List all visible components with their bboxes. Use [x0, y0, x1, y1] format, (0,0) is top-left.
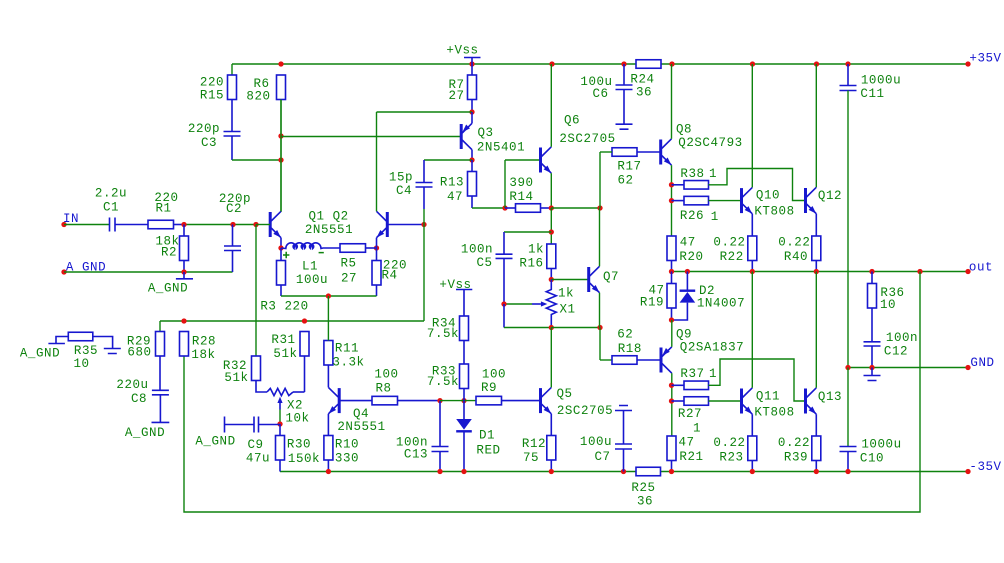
svg-text:3.3k: 3.3k	[332, 355, 364, 369]
wire Q3 base run	[281, 136, 461, 138]
wire Q9 collector	[671, 373, 673, 436]
transistor Q3	[461, 123, 525, 154]
junction on +35V rail at Q10 collector	[750, 61, 755, 66]
svg-text:R24: R24	[630, 73, 654, 87]
svg-text:R23: R23	[719, 450, 743, 464]
svg-text:Q8: Q8	[676, 123, 692, 137]
svg-text:C9: C9	[247, 438, 263, 452]
capacitor C6	[580, 64, 632, 124]
junction on +35V rail at Q8 collector	[669, 61, 674, 66]
svg-text:36: 36	[636, 86, 652, 100]
wire Q8 collector	[671, 64, 673, 139]
svg-text:330: 330	[335, 451, 359, 465]
resistor R12	[522, 436, 556, 472]
svg-text:A_GND: A_GND	[125, 426, 165, 440]
svg-text:0.22: 0.22	[713, 236, 745, 250]
junction Q1 base node	[253, 222, 258, 227]
svg-text:0.22: 0.22	[778, 236, 810, 250]
wire Q6 base	[505, 160, 541, 208]
svg-text:51k: 51k	[273, 347, 297, 361]
svg-text:R16: R16	[519, 256, 543, 270]
svg-text:47u: 47u	[246, 451, 270, 465]
wire C5 top branch	[504, 232, 551, 254]
node R6/C3/Q3-base junction	[278, 133, 283, 138]
svg-text:7.5k: 7.5k	[427, 327, 459, 341]
resistor R14	[505, 176, 552, 212]
svg-text:out: out	[969, 261, 993, 275]
svg-text:R15: R15	[200, 88, 224, 102]
resistor R4	[372, 248, 407, 296]
svg-text:2.2u: 2.2u	[95, 186, 127, 200]
resistor R8	[339, 367, 440, 405]
svg-text:R14: R14	[509, 190, 533, 204]
wire R8-R9 node run	[440, 400, 476, 402]
wire Q12 emitter	[815, 214, 817, 236]
wire R7 node to Q2 collector	[377, 111, 473, 113]
wire R15 top branch	[231, 64, 233, 75]
capacitor C9	[195, 417, 280, 466]
junction Q2 base / C4	[421, 209, 426, 227]
svg-text:27: 27	[448, 89, 464, 103]
junction -35V R12	[549, 469, 554, 474]
svg-text:Q9: Q9	[676, 327, 692, 341]
transistor Q13	[806, 388, 843, 414]
svg-text:C13: C13	[404, 448, 428, 462]
svg-text:1: 1	[711, 210, 719, 224]
resistor R18	[612, 327, 661, 364]
resistor R6	[246, 75, 285, 212]
svg-text:2N5401: 2N5401	[477, 140, 525, 154]
svg-text:75: 75	[523, 451, 539, 465]
svg-text:R26: R26	[680, 209, 704, 223]
resistor R39	[778, 436, 821, 472]
junction X2 wiper / C9 / R30	[277, 421, 282, 426]
wire Q7 emitter	[599, 293, 601, 328]
svg-text:R35: R35	[74, 344, 98, 358]
resistor R23	[713, 436, 756, 472]
svg-text:Q2SA1837: Q2SA1837	[680, 340, 744, 354]
svg-text:2N5551: 2N5551	[337, 420, 385, 434]
svg-text:C4: C4	[396, 184, 412, 198]
svg-text:+35V: +35V	[969, 52, 1001, 66]
junction -35V R23	[750, 469, 755, 474]
svg-text:C2: C2	[226, 202, 242, 216]
svg-text:51k: 51k	[224, 371, 248, 385]
capacitor C5	[461, 242, 513, 304]
resistor R38	[672, 167, 806, 201]
junction -35V R21	[669, 469, 674, 474]
resistor R9	[476, 367, 541, 405]
wire X1 wiper to C5 bottom	[504, 303, 532, 305]
wire Q6 emitter	[550, 173, 552, 208]
svg-text:C1: C1	[103, 200, 119, 214]
svg-text:2N5551: 2N5551	[305, 223, 353, 237]
resistor R34	[427, 316, 469, 364]
node A_GND terminal	[61, 260, 106, 274]
junction R28 top	[181, 318, 186, 323]
svg-text:X1: X1	[559, 302, 575, 316]
junction Q2 emitter / R5 / R4	[366, 245, 380, 250]
svg-text:390: 390	[509, 176, 533, 190]
svg-text:15p: 15p	[389, 170, 413, 184]
wire Q7 collector	[599, 208, 601, 266]
junction R38 node	[669, 182, 674, 187]
junction out rail D2	[685, 269, 690, 274]
resistor R19	[640, 272, 676, 321]
transistor Q12	[806, 187, 843, 213]
ground symbol below C6	[616, 124, 633, 129]
svg-text:X2: X2	[287, 398, 303, 412]
svg-text:R12: R12	[522, 437, 546, 451]
diode D1	[456, 401, 500, 472]
junction R26 node	[669, 198, 674, 203]
resistor R7	[448, 64, 476, 112]
junction R19 bottom / Q9 emitter	[669, 317, 674, 322]
junction on +35V rail at C11	[845, 61, 850, 66]
svg-text:10: 10	[880, 298, 896, 312]
wire Q3 collector	[471, 150, 473, 160]
capacitor C12	[864, 331, 919, 368]
node +35V terminal	[965, 52, 1001, 67]
wire -35V rail	[280, 471, 968, 473]
resistor R33	[427, 364, 469, 401]
svg-text:R39: R39	[784, 450, 808, 464]
svg-text:R25: R25	[631, 481, 655, 495]
wire Q4 collector	[327, 365, 329, 387]
capacitor C1	[95, 186, 148, 231]
capacitor C13	[396, 401, 449, 472]
junction out rail Q13 collector	[814, 269, 819, 274]
svg-text:A_GND: A_GND	[20, 346, 60, 360]
junction C13 node	[437, 398, 442, 403]
svg-text:820: 820	[246, 89, 270, 103]
svg-text:62: 62	[617, 327, 633, 341]
wire Q2 collector	[376, 112, 378, 211]
wire Q5 emitter	[550, 414, 552, 436]
resistor R13	[440, 160, 477, 208]
junction Q7 collector node	[597, 205, 602, 210]
svg-text:KT808: KT808	[754, 204, 794, 218]
junction -35V C13	[437, 469, 442, 474]
wire Q1 emitter	[0, 0, 1, 1]
power +Vss symbol top	[446, 43, 480, 64]
resistor R5	[340, 244, 366, 286]
svg-text:C6: C6	[592, 87, 608, 101]
resistor R32	[223, 356, 267, 392]
junction Q3 collector node	[469, 157, 474, 162]
svg-text:C7: C7	[594, 450, 610, 464]
junction R37 node	[669, 383, 674, 388]
svg-text:C11: C11	[860, 87, 884, 101]
svg-text:R21: R21	[679, 450, 703, 464]
svg-text:2SC2705: 2SC2705	[559, 132, 615, 146]
capacitor C3	[188, 122, 281, 160]
svg-text:100: 100	[482, 367, 506, 381]
transistor Q8	[661, 123, 743, 166]
svg-text:Q11: Q11	[756, 389, 780, 403]
svg-text:47: 47	[447, 190, 463, 204]
junction -35V C7	[621, 469, 626, 474]
svg-text:100u: 100u	[580, 435, 612, 449]
capacitor C8	[116, 378, 169, 423]
svg-text:36: 36	[637, 495, 653, 509]
wire Q10 emitter	[751, 214, 753, 236]
capacitor C2	[219, 192, 251, 272]
resistor R25	[631, 467, 660, 508]
transistor Q5	[541, 387, 614, 418]
junction R2 bottom / A_GND	[181, 269, 186, 274]
diode D2	[672, 272, 746, 321]
svg-text:1: 1	[709, 367, 717, 381]
svg-text:18k: 18k	[191, 348, 215, 362]
junction X1 bottom	[549, 325, 554, 330]
wire Q1 base node to R32	[255, 225, 257, 357]
wire A_GND run	[64, 271, 233, 273]
junction tail node	[326, 293, 331, 298]
svg-text:GND: GND	[970, 356, 994, 370]
junction out rail feedback	[917, 269, 922, 274]
svg-text:IN: IN	[63, 212, 79, 226]
svg-text:Q5: Q5	[556, 387, 572, 401]
wire Q13 emitter	[815, 414, 817, 436]
junction GND rail C12	[869, 365, 874, 370]
resistor R37	[672, 359, 806, 401]
resistor R2	[155, 225, 188, 273]
svg-text:R22: R22	[720, 250, 744, 264]
wire Q7 node to R18	[600, 328, 612, 361]
junction Q1 emitter / L1 / R3	[278, 238, 283, 251]
wire feedback from out	[184, 272, 920, 513]
svg-text:C10: C10	[860, 451, 884, 465]
junction on +35V rail at Q6 collector	[549, 61, 554, 66]
svg-text:150k: 150k	[288, 452, 320, 466]
ground A_GND symbol below R2	[148, 272, 193, 295]
resistor R15	[200, 75, 237, 131]
svg-text:R8: R8	[375, 381, 391, 395]
junction on +35V rail at R7/+Vss	[469, 61, 474, 66]
transistor Q9	[661, 327, 744, 373]
wire Q2 emitter join	[376, 238, 378, 248]
svg-text:R5: R5	[340, 256, 356, 270]
transistor Q7	[589, 266, 619, 292]
potentiometer X1	[532, 280, 576, 328]
resistor R1	[148, 191, 184, 229]
junction R31 top	[302, 318, 307, 323]
svg-text:1k: 1k	[558, 286, 574, 300]
svg-text:RED: RED	[476, 443, 500, 457]
wire GND rail	[848, 367, 968, 369]
junction out rail R36	[869, 269, 874, 274]
junction C2 top	[230, 222, 235, 227]
junction on +35V rail at C6	[621, 61, 626, 66]
transistor Q11	[742, 388, 795, 420]
svg-text:Q12: Q12	[818, 189, 842, 203]
svg-text:1000u: 1000u	[861, 73, 901, 87]
wire Q11 collector	[751, 272, 753, 388]
resistor R31	[271, 332, 309, 393]
svg-text:+Vss: +Vss	[446, 43, 478, 57]
resistor R28	[180, 332, 217, 362]
junction R7 bottom	[469, 109, 474, 114]
svg-text:C3: C3	[201, 136, 217, 150]
svg-text:R31: R31	[271, 333, 295, 347]
junction R16 bottom / X1 top / Q7 base	[549, 277, 554, 282]
wire C5 bottom to X1 bottom	[504, 304, 551, 328]
wire Q6 collector	[550, 64, 552, 147]
svg-text:R20: R20	[679, 250, 703, 264]
svg-text:Q7: Q7	[603, 270, 619, 284]
resistor R3	[260, 248, 308, 313]
junction R1/R2	[181, 222, 186, 227]
svg-text:R30: R30	[287, 437, 311, 451]
svg-text:100u: 100u	[296, 273, 328, 287]
svg-text:R3 220: R3 220	[260, 299, 308, 313]
junction GND rail C11/C10	[845, 365, 850, 370]
node IN terminal	[61, 212, 79, 227]
svg-text:10k: 10k	[285, 411, 309, 425]
svg-text:-35V: -35V	[969, 460, 1001, 474]
svg-text:R4: R4	[381, 268, 397, 282]
svg-text:Q13: Q13	[818, 390, 842, 404]
junction on +35V rail at R6	[278, 61, 283, 66]
node out terminal	[965, 261, 993, 275]
wire +Vss/+35V top rail	[232, 63, 968, 65]
svg-text:Q10: Q10	[756, 188, 780, 202]
junction on +35V rail at Q12 collector	[814, 61, 819, 66]
junction -35V R39	[814, 469, 819, 474]
svg-text:2SC2705: 2SC2705	[557, 404, 613, 418]
svg-text:1k: 1k	[528, 242, 544, 256]
svg-text:R17: R17	[617, 160, 641, 174]
resistor R29	[127, 332, 165, 391]
resistor R30	[276, 424, 321, 472]
resistor R40	[778, 236, 821, 272]
svg-text:220p: 220p	[188, 122, 220, 136]
transistor Q2	[377, 211, 425, 237]
resistor R26	[672, 196, 742, 224]
node GND terminal	[965, 356, 994, 370]
wire Q8 emitter	[671, 165, 673, 236]
junction R14 left / Q6 base node	[502, 205, 507, 210]
resistor R22	[713, 236, 756, 272]
svg-text:Q6: Q6	[564, 113, 580, 127]
svg-text:0.22: 0.22	[713, 436, 745, 450]
junction out rail R19	[669, 269, 674, 274]
svg-text:100n: 100n	[886, 331, 918, 345]
wire Q5 collector	[550, 328, 552, 388]
wire IN to C1	[64, 224, 109, 226]
wire out rail	[672, 271, 969, 273]
svg-text:C8: C8	[131, 392, 147, 406]
svg-text:A_GND: A_GND	[195, 434, 235, 448]
resistor R10	[324, 436, 359, 472]
svg-text:100n: 100n	[461, 242, 493, 256]
transistor Q1	[256, 209, 353, 237]
svg-text:27: 27	[341, 271, 357, 285]
resistor R27	[672, 397, 742, 436]
svg-text:D1: D1	[479, 428, 495, 442]
junction R33/D1 node	[461, 398, 466, 403]
svg-text:R38: R38	[680, 167, 704, 181]
svg-text:L1: L1	[302, 259, 318, 273]
junction Q7 emitter node	[597, 325, 602, 330]
wire Q3 collector to C4	[424, 160, 472, 183]
wire Q4 emitter	[327, 414, 329, 436]
svg-text:1: 1	[693, 421, 701, 435]
svg-text:Q2SC4793: Q2SC4793	[678, 136, 742, 150]
svg-text:47: 47	[680, 236, 696, 250]
svg-text:47: 47	[678, 436, 694, 450]
svg-text:R13: R13	[440, 175, 464, 189]
wire R13 bottom to VAS node	[472, 207, 505, 209]
ground A_GND symbol below C8	[125, 422, 169, 440]
wire Q1 collector	[280, 100, 282, 211]
transistor Q4	[328, 387, 385, 433]
resistor R21	[667, 436, 704, 472]
svg-text:10: 10	[73, 357, 89, 371]
svg-text:R2: R2	[161, 245, 177, 259]
inductor L1	[281, 243, 340, 287]
ground symbol below C12	[864, 368, 881, 381]
capacitor C10	[840, 368, 902, 472]
junction R16 top / C5	[549, 229, 554, 234]
svg-text:R28: R28	[192, 334, 216, 348]
wire X1 bottom to Q7 emitter node	[551, 327, 600, 329]
resistor R16	[519, 242, 555, 279]
junction -35V R10	[326, 469, 331, 474]
svg-text:62: 62	[617, 173, 633, 187]
junction -35V D1	[461, 469, 466, 474]
transistor Q10	[742, 187, 795, 218]
power +Vss symbol above R34	[439, 278, 472, 317]
svg-text:R19: R19	[640, 296, 664, 310]
capacitor C11	[840, 64, 902, 368]
svg-text:7.5k: 7.5k	[427, 375, 459, 389]
svg-text:220u: 220u	[116, 378, 148, 392]
capacitor C7	[580, 406, 632, 472]
resistor R11	[324, 296, 365, 369]
svg-text:Q3: Q3	[477, 126, 493, 140]
junction VAS node	[549, 205, 554, 210]
svg-text:680: 680	[127, 345, 151, 359]
wire Q7 base	[551, 279, 588, 281]
wire Q9 emitter	[671, 320, 673, 347]
svg-text:R9: R9	[481, 381, 497, 395]
svg-text:KT808: KT808	[754, 405, 794, 419]
junction out rail Q11 collector	[750, 269, 755, 274]
wire tail node	[281, 295, 377, 297]
junction C5 bottom / wiper	[501, 301, 506, 306]
svg-text:0.22: 0.22	[778, 436, 810, 450]
svg-text:100: 100	[374, 367, 398, 381]
svg-text:R11: R11	[335, 341, 359, 355]
capacitor C4	[389, 170, 433, 209]
resistor R24 on top rail	[630, 60, 661, 100]
wire VAS column upper	[550, 208, 552, 244]
resistor R35	[20, 332, 121, 371]
potentiometer X2	[267, 388, 310, 425]
svg-text:C12: C12	[884, 345, 908, 359]
svg-text:A_GND: A_GND	[148, 281, 188, 295]
resistor R17	[600, 148, 661, 208]
transistor Q6	[541, 113, 616, 173]
junction R27 node	[669, 398, 674, 403]
svg-text:1000u: 1000u	[861, 438, 901, 452]
svg-text:1: 1	[709, 167, 717, 181]
wire VAS node to Q7 node	[551, 207, 600, 209]
svg-text:Q1 Q2: Q1 Q2	[308, 209, 348, 223]
wire Q10 collector	[751, 64, 753, 187]
